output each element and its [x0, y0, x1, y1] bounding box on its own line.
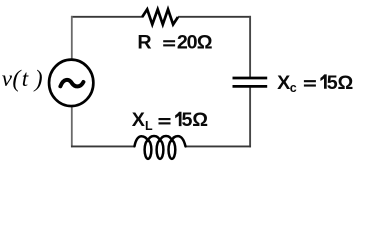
wire bottom-left segment: [71, 145, 135, 147]
label XL = 15ohm: [132, 109, 208, 133]
svg-text:X: X: [132, 109, 145, 131]
resistor R zigzag: [142, 9, 178, 24]
inductor XL coil: [135, 136, 186, 159]
voltage source V1 circle: [49, 60, 93, 106]
capacitor Xc top plate: [233, 77, 268, 80]
wire left upper segment: [71, 16, 73, 59]
svg-text:R: R: [137, 32, 151, 54]
wire right lower segment: [249, 86, 251, 147]
wire left lower segment: [71, 106, 73, 147]
svg-text:v: v: [2, 66, 13, 91]
svg-text:Ω: Ω: [338, 72, 354, 94]
svg-text:Ω: Ω: [197, 32, 213, 54]
svg-text:L: L: [145, 119, 153, 133]
wire bottom-right segment: [186, 145, 252, 147]
label Xc = 15ohm: [277, 72, 353, 95]
label v(t): [2, 66, 43, 92]
svg-text:Ω: Ω: [192, 109, 208, 131]
voltage source V1 sine symbol: [60, 80, 83, 87]
capacitor Xc bottom plate: [233, 85, 268, 88]
svg-text:X: X: [277, 72, 290, 94]
wire top-left segment: [71, 16, 143, 18]
svg-text:c: c: [290, 81, 297, 95]
svg-text:5: 5: [182, 109, 193, 131]
wire right upper segment: [249, 16, 251, 78]
svg-text:t: t: [22, 66, 29, 91]
wire top-right segment: [178, 16, 251, 18]
svg-text:): ): [33, 67, 43, 93]
label R = 20ohm: [137, 32, 212, 54]
svg-text:5: 5: [327, 72, 338, 94]
